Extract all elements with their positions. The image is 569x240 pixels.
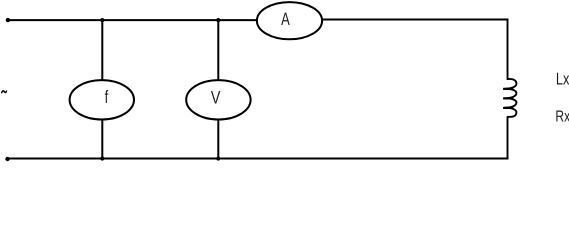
- svg-text:A: A: [281, 9, 290, 29]
- junction bottom V: [216, 156, 220, 160]
- svg-text:V: V: [211, 87, 220, 107]
- frequency meter f ellipse: [70, 80, 134, 119]
- ammeter A ellipse: [257, 2, 322, 39]
- AC source symbol ~: [2, 91, 7, 93]
- svg-text:Lx: Lx: [556, 69, 569, 88]
- voltmeter V ellipse: [186, 80, 250, 119]
- junction top f: [100, 18, 104, 22]
- junction bottom f: [100, 156, 104, 160]
- terminal dot bottom-left: [5, 157, 9, 161]
- wire top horizontal: [8, 19, 509, 22]
- wire branch f lower: [101, 119, 103, 160]
- inductor Lx Rx coil: [503, 79, 516, 117]
- junction top V: [216, 18, 220, 22]
- wire branch f upper: [101, 19, 103, 81]
- wire branch V upper: [217, 19, 219, 81]
- terminal dot top-left: [6, 18, 10, 22]
- wire branch V lower: [217, 119, 219, 160]
- wire bottom horizontal: [8, 158, 509, 160]
- wire right vertical: [507, 20, 509, 159]
- svg-text:Rx: Rx: [555, 109, 569, 126]
